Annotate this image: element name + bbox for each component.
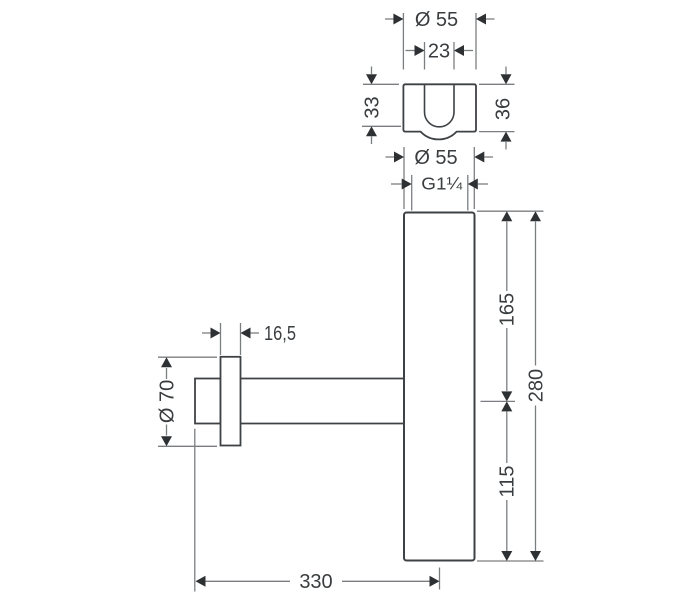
svg-text:33: 33 <box>362 96 384 118</box>
svg-text:165: 165 <box>497 293 519 326</box>
extension lines for right-side dimensions <box>477 211 544 561</box>
dimension G 1 1/4 (thread size) <box>391 174 488 211</box>
svg-text:280: 280 <box>526 369 548 402</box>
svg-text:36: 36 <box>493 98 515 120</box>
svg-text:16,5: 16,5 <box>264 323 296 345</box>
dimension 280 (overall body height) <box>526 211 548 561</box>
svg-text:Ø 55: Ø 55 <box>415 9 458 31</box>
dimension 36 (right of bracket) <box>479 67 515 150</box>
svg-text:Ø 70: Ø 70 <box>157 380 179 423</box>
dimension 16,5 (flange thickness) <box>202 323 296 355</box>
bracket outline (top view of wall fitting) <box>403 84 476 139</box>
dimension Ø 55 (top) <box>385 9 495 70</box>
svg-text:330: 330 <box>299 571 332 593</box>
svg-text:G1¼: G1¼ <box>421 174 462 194</box>
dimension 165 (body top to pipe axis) <box>497 211 519 401</box>
wall pipe stub <box>195 379 221 424</box>
horizontal outlet pipe <box>241 379 405 424</box>
dimension Ø 70 (flange diameter) <box>157 357 218 446</box>
dimension Ø 55 (below bracket) <box>386 147 494 209</box>
svg-text:Ø 55: Ø 55 <box>414 147 457 169</box>
svg-text:115: 115 <box>497 466 519 498</box>
siphon body (main vertical cylinder) <box>404 213 475 561</box>
dimension 23 (top) <box>406 41 474 70</box>
inner U cutout of bracket <box>425 84 455 127</box>
dimension 330 (wall to body axis) <box>195 429 440 593</box>
dimension 115 (pipe axis to body bottom) <box>497 401 519 561</box>
dimension 33 (left of bracket) <box>362 67 402 145</box>
svg-text:23: 23 <box>428 41 450 63</box>
wall flange (escutcheon) <box>221 357 241 446</box>
